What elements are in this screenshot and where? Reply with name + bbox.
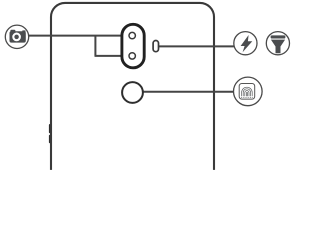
wire flash callout bbox=[159, 45, 235, 47]
torch icon body bbox=[271, 40, 285, 54]
flash pill bbox=[153, 41, 158, 52]
bottom crop band bbox=[0, 170, 300, 175]
fingerprint icon frame bbox=[239, 84, 255, 100]
wire camera callout vertical bbox=[94, 36, 96, 56]
camera lens top bbox=[129, 32, 135, 38]
phone body bbox=[51, 3, 214, 193]
camera lens bottom bbox=[129, 53, 135, 59]
camera icon circle bbox=[5, 25, 28, 48]
flash icon circle bbox=[234, 32, 257, 55]
wire camera callout top bbox=[29, 35, 121, 37]
camera module pill bbox=[122, 24, 144, 68]
fingerprint icon circle bbox=[234, 77, 263, 106]
torch icon head bbox=[271, 35, 286, 38]
torch icon circle bbox=[266, 32, 289, 55]
fingerprint sensor bbox=[122, 82, 143, 103]
fingerprint icon ridges bbox=[241, 87, 253, 97]
wire camera callout bottom bbox=[95, 55, 122, 57]
camera icon glyph bbox=[10, 30, 26, 43]
wire fingerprint callout bbox=[143, 91, 234, 93]
flash icon bolt bbox=[241, 35, 253, 52]
side button upper bbox=[49, 124, 52, 133]
side button lower bbox=[49, 135, 52, 143]
